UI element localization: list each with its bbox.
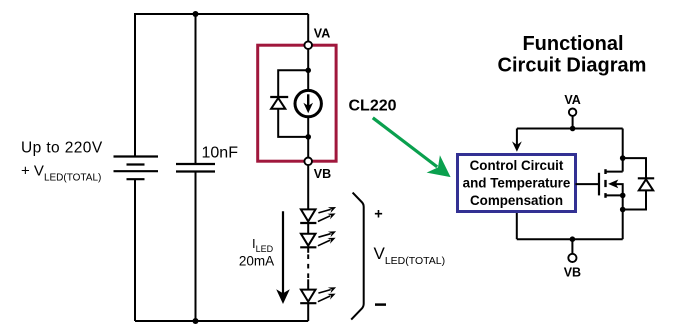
wire diode branch bottom: [278, 109, 308, 137]
wire diode branch right bottom: [623, 190, 646, 209]
wire dashed ellipsis segment: [307, 254, 309, 278]
wire source down: [622, 195, 624, 239]
wire current source to internal bottom junction: [307, 117, 309, 137]
label VLED(TOTAL) right: [374, 244, 446, 267]
wire LED3 to bottom rail: [307, 303, 309, 321]
wire top rail: [135, 13, 308, 15]
svg-text:Up to 220V: Up to 220V: [21, 140, 103, 157]
svg-text:20mA: 20mA: [239, 253, 274, 268]
svg-text:10nF: 10nF: [202, 145, 239, 162]
node VA terminal: [304, 41, 312, 49]
wire to current source: [307, 70, 309, 90]
label 10nF: [202, 145, 239, 162]
wire VA to internal junction: [307, 49, 309, 70]
bracket VLED(TOTAL): [351, 193, 364, 320]
svg-text:VA: VA: [564, 93, 580, 107]
wire functional bottom rail: [517, 238, 623, 240]
svg-text:VB: VB: [314, 167, 331, 181]
wire VA right lead: [572, 116, 574, 129]
label minus: [375, 303, 386, 306]
svg-text:Circuit Diagram: Circuit Diagram: [498, 55, 647, 77]
current source I1: [295, 90, 321, 116]
transistor Q1 MOSFET: [599, 169, 623, 198]
LED D2: [300, 207, 336, 223]
wire capacitor branch lower: [195, 172, 197, 322]
label VB right: [564, 266, 581, 280]
battery B1: [114, 157, 159, 180]
wire functional top rail: [517, 128, 623, 130]
svg-text:and Temperature: and Temperature: [463, 176, 571, 191]
wire bottom rail: [135, 320, 308, 322]
node VB terminal: [304, 158, 312, 166]
diode D1 internal: [270, 97, 288, 109]
wire VA lead: [307, 14, 309, 41]
node VA terminal right: [569, 109, 576, 116]
svg-text:CL220: CL220: [349, 97, 397, 114]
wire left branch with arrow into control box: [512, 129, 522, 152]
node junction bottom rail / capacitor: [193, 318, 199, 324]
wire solid to LED3: [307, 279, 309, 289]
wire internal junction to VB: [307, 137, 309, 157]
green callout arrow: [373, 118, 451, 177]
ILED current direction arrow: [276, 211, 290, 304]
svg-text:+: +: [374, 206, 382, 222]
node junction source / body: [620, 193, 626, 199]
node internal bottom junction: [305, 134, 311, 140]
wire VB to LED1: [307, 165, 309, 209]
wire LED1 to LED2: [307, 223, 309, 234]
label plus: [374, 206, 382, 222]
label control box text: [463, 158, 571, 208]
wire VB right lead: [571, 239, 573, 254]
svg-text:Functional: Functional: [522, 33, 623, 55]
label ILED: [252, 236, 274, 254]
label VB: [314, 167, 331, 181]
wire diode branch top: [278, 70, 308, 97]
wire diode branch right top: [623, 158, 646, 178]
node junction VA rail: [570, 126, 576, 132]
label VA: [314, 26, 330, 40]
wire gate lead: [576, 183, 600, 185]
svg-text:VB: VB: [564, 266, 581, 280]
CL220 package outline box: [258, 45, 336, 161]
wire control box bottom to rail: [516, 213, 518, 239]
svg-text:Compensation: Compensation: [470, 193, 563, 208]
capacitor C1: [176, 164, 215, 172]
label VA right: [564, 93, 580, 107]
wire LED2 down solid: [307, 247, 309, 253]
node junction drain / diode top: [620, 155, 626, 161]
svg-text:VA: VA: [314, 26, 330, 40]
diode D5 body diode: [638, 178, 654, 190]
title Functional Circuit Diagram: [498, 33, 647, 77]
wire battery branch upper: [134, 13, 136, 157]
label CL220: [349, 97, 397, 114]
node junction VB rail: [570, 236, 576, 242]
label Up to 220V: [21, 140, 103, 157]
LED D3: [300, 231, 336, 247]
wire battery branch lower: [134, 179, 136, 321]
label + VLED(TOTAL): [21, 163, 101, 184]
label 20mA: [239, 253, 274, 268]
wire capacitor branch upper: [195, 14, 197, 164]
control circuit box U1: [458, 155, 576, 212]
node VB terminal right: [568, 254, 576, 262]
svg-text:Control Circuit: Control Circuit: [470, 158, 564, 173]
node junction diode bottom: [620, 207, 626, 213]
node junction top rail / capacitor: [193, 11, 199, 17]
wire right branch to drain: [622, 129, 624, 172]
node internal top junction: [305, 68, 311, 74]
LED D4: [300, 287, 336, 303]
